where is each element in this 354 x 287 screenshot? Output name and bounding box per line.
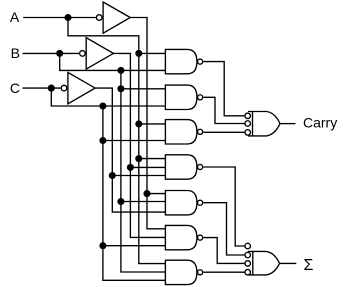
wire G1 output to Carry gate pin1 xyxy=(203,62,245,116)
inverter U2 input bubble xyxy=(80,51,86,57)
wire B-bar from U2 to vertical bus then to gate G6 pin2 xyxy=(113,53,165,237)
nand G3 output bubble xyxy=(198,129,203,134)
nand gate G1 xyxy=(165,49,197,73)
nand gate G4 xyxy=(165,155,197,179)
wire C vertical bus down to gate G7 pin3 xyxy=(103,106,165,280)
wire B input xyxy=(23,52,80,54)
carry gate input bubble 1 xyxy=(245,113,251,119)
wire B-bar to G4 pin2 xyxy=(130,166,165,168)
svg-text:B: B xyxy=(11,45,20,61)
wire G7 output to Sum gate pin4 xyxy=(203,271,245,273)
node dot B/G5 xyxy=(117,198,124,205)
inverter U3 input bubble xyxy=(61,85,67,91)
wire C branch down then right to gate G2 pin2 xyxy=(51,88,165,106)
node dot Cbar/G4 xyxy=(109,172,116,179)
inverter U2 (B) xyxy=(86,38,113,69)
svg-text:A: A xyxy=(10,9,20,25)
wire B to G5 pin2 xyxy=(121,201,165,203)
wire A-bar from U1 to vertical bus then to gate G6 pin1 xyxy=(130,18,165,229)
carry gate U8 (OR shape) xyxy=(248,112,280,136)
inverter U1 input bubble xyxy=(96,15,102,21)
node dot A/G3 xyxy=(135,120,142,127)
wire G4 output to Sum gate pin1 xyxy=(203,167,245,246)
svg-text:C: C xyxy=(10,80,20,96)
inverter U3 (C) xyxy=(68,72,95,103)
carry gate input bubble 2 xyxy=(245,121,251,127)
nand gate G7 xyxy=(165,260,197,284)
wire A-bar to G5 pin1 xyxy=(147,193,165,195)
wire A to G4 pin1 xyxy=(139,158,166,160)
nand G6 output bubble xyxy=(198,235,203,240)
wire B branch down then right to gate G1 pin2 xyxy=(60,53,166,70)
node B junction dot xyxy=(56,50,63,57)
wire Carry output xyxy=(280,123,296,125)
node dot C bus top xyxy=(99,102,106,109)
sum gate input bubble 4 xyxy=(245,269,251,275)
nand gate G6 xyxy=(165,225,197,249)
node dot A/G1 xyxy=(135,50,142,57)
sum gate input bubble 2 xyxy=(245,252,251,258)
wire B to G2 pin1 xyxy=(121,88,165,90)
node A junction dot xyxy=(64,14,71,21)
wire A to G3 pin1 xyxy=(139,123,166,125)
nand gate G2 xyxy=(165,85,197,109)
nand G1 output bubble xyxy=(198,59,203,64)
node dot C/G3 xyxy=(99,137,106,144)
nand gate G5 xyxy=(165,191,197,215)
wire Sum output xyxy=(280,262,297,264)
node dot B/G2 xyxy=(117,85,124,92)
wire C to G6 pin3 xyxy=(103,245,165,247)
node dot B bus top xyxy=(117,67,124,74)
node dot Abar/G5 xyxy=(143,190,150,197)
nand G7 output bubble xyxy=(198,270,203,275)
wire A to G1 pin1 xyxy=(139,52,166,54)
wire C-bar from U3 to vertical bus then to gate G5 pin3 xyxy=(95,88,165,212)
wire C to G3 pin2 xyxy=(103,140,165,142)
wire G6 output to Sum gate pin3 xyxy=(203,238,245,264)
nand G4 output bubble xyxy=(198,164,203,169)
wire G2 output to Carry gate pin2 xyxy=(203,97,245,123)
wire C-bar to G4 pin3 xyxy=(112,175,165,177)
sum gate input bubble 3 xyxy=(245,261,251,267)
wire A input xyxy=(23,17,96,19)
wire A branch down and right to vertical bus then to gate G7 pin1 xyxy=(68,18,165,264)
inverter U1 (A) xyxy=(103,2,130,33)
svg-text:Carry: Carry xyxy=(303,114,337,130)
node dot Bbar/G4 xyxy=(127,164,134,171)
sum gate U9 (OR shape) xyxy=(248,251,280,275)
node C junction dot xyxy=(48,85,55,92)
carry gate input bubble 3 xyxy=(245,130,251,136)
node dot C/G6 xyxy=(99,242,106,249)
svg-text:Σ: Σ xyxy=(304,257,314,274)
wire B vertical bus down to gate G7 pin2 xyxy=(121,70,165,272)
nand G2 output bubble xyxy=(198,95,203,100)
wire G3 output to Carry gate pin3 xyxy=(203,131,245,133)
node dot A/G4 xyxy=(135,155,142,162)
wire G5 output to Sum gate pin2 xyxy=(203,203,245,255)
nand gate G3 xyxy=(165,120,197,144)
nand G5 output bubble xyxy=(198,200,203,205)
sum gate input bubble 1 xyxy=(245,243,251,249)
wire C input xyxy=(23,87,61,89)
